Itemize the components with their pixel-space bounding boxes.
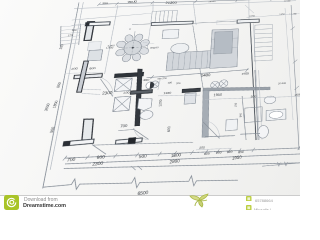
door leaf lower (90, 143, 108, 156)
dim line right end (262, 162, 300, 167)
bath wall vertical bar (130, 69, 146, 127)
svg-text:1950: 1950 (232, 154, 243, 160)
grid drop x193 (191, 1, 198, 25)
svg-text:1800: 1800 (171, 152, 183, 158)
svg-text:2x100: 2x100 (208, 0, 216, 3)
shelf ladder right (254, 24, 272, 61)
door swing bath arc (132, 127, 150, 141)
svg-text:min 200: min 200 (157, 77, 168, 80)
dimension line top row 2 (74, 1, 296, 9)
svg-text:950: 950 (238, 150, 244, 155)
arrow right 1 (277, 162, 280, 166)
wall cross W2 horizontal bar (74, 74, 103, 79)
staircase top-left (57, 24, 84, 47)
dimension line top row 1 (99, 0, 296, 5)
gray wall horizontal (203, 83, 270, 94)
svg-text:200: 200 (251, 94, 257, 98)
svg-text:850: 850 (56, 82, 63, 88)
svg-text:1950: 1950 (241, 72, 249, 76)
dim row 1 (62, 136, 300, 172)
green icon row2 (246, 205, 252, 211)
washing machine (184, 93, 196, 104)
svg-text:2300: 2300 (92, 160, 105, 167)
small cabinet rect (226, 119, 238, 131)
svg-text:1950: 1950 (279, 12, 285, 15)
svg-text:1160: 1160 (163, 91, 171, 95)
bath wall horizontal bar (114, 72, 143, 77)
grid bubble 1 (210, 81, 219, 89)
svg-text:600: 600 (227, 149, 233, 154)
svg-text:500: 500 (139, 153, 148, 159)
svg-text:3600: 3600 (43, 103, 51, 111)
door swing from W2 (97, 78, 115, 98)
svg-text:150: 150 (233, 102, 237, 107)
window bar right (237, 19, 259, 23)
coffee table oval (170, 43, 189, 54)
svg-text:700: 700 (67, 156, 77, 162)
svg-text:560: 560 (49, 127, 56, 133)
grid line x118 (105, 5, 118, 74)
bottom wall right segment2 (240, 132, 260, 135)
svg-text:5400: 5400 (201, 72, 211, 77)
dining table with 8 chairs (113, 31, 153, 64)
svg-text:600: 600 (89, 66, 96, 70)
right chain ticks (290, 27, 299, 91)
bottom wall bar middle (115, 138, 142, 144)
thin line right of W2 b (81, 92, 100, 96)
toilet oval (140, 110, 154, 120)
shaft box 1 (114, 78, 132, 92)
svg-text:200: 200 (143, 78, 150, 82)
wall living-kitchen (187, 25, 207, 90)
dim line 200c (196, 146, 232, 151)
tv rect (162, 29, 179, 38)
svg-text:600: 600 (166, 126, 171, 132)
dimension ticks top row (97, 0, 297, 6)
dim row 2 (62, 141, 300, 178)
corner sink (137, 98, 152, 111)
ticks arrows row3 (131, 165, 143, 171)
svg-text:150: 150 (167, 81, 172, 84)
right wall inner line (251, 23, 262, 140)
green icon row1 (246, 196, 252, 202)
svg-text:230: 230 (123, 90, 130, 94)
fan symbol (146, 82, 155, 89)
washer wall bar (182, 88, 200, 92)
oval fixture 2 in box (266, 109, 286, 121)
ticks 5400 (150, 68, 248, 79)
wardrobe with dividers (151, 10, 178, 22)
right dim chain (291, 5, 299, 151)
shaft box 2 (113, 96, 131, 111)
right wall lower vertical 2 (257, 70, 263, 140)
thin line left of W1 (71, 24, 85, 25)
grid drop x153 (152, 2, 154, 11)
svg-text:200: 200 (71, 67, 78, 71)
door leaf bath (131, 127, 150, 141)
dim line top right tier3 (247, 14, 300, 18)
right wall lower vertical (254, 70, 260, 141)
dim line under W2 (65, 71, 104, 75)
oval fixture 3 (258, 125, 269, 138)
svg-text:360: 360 (58, 44, 64, 49)
svg-text:700: 700 (120, 124, 128, 129)
svg-text:900: 900 (96, 154, 106, 160)
svg-text:900: 900 (216, 150, 222, 155)
svg-text:+7,195: +7,195 (289, 12, 297, 15)
left wall dark end (63, 141, 70, 146)
svg-text:2800: 2800 (169, 158, 181, 165)
upper chain cross line (72, 13, 151, 20)
svg-text:Ø1100: Ø1100 (150, 45, 159, 49)
wall line y145 (92, 136, 194, 152)
leader line top right (245, 5, 254, 14)
grid bubble 2 (219, 80, 228, 88)
dim line 1160 (158, 93, 200, 98)
bottom dim row 3 (60, 145, 300, 188)
grid bubble 3 (150, 81, 159, 88)
left window bar lower (63, 139, 94, 146)
svg-text:300: 300 (71, 28, 77, 32)
window bar W1 dark end (85, 23, 89, 26)
top wall line left (132, 23, 151, 26)
watermark bar (0, 195, 300, 211)
svg-text:200: 200 (176, 82, 181, 85)
svg-text:200: 200 (199, 145, 205, 150)
svg-text:1800: 1800 (52, 100, 60, 108)
ticks bottom row1 (60, 134, 300, 174)
oval fixture 1 (264, 96, 276, 104)
svg-text:9600: 9600 (127, 0, 138, 4)
bottom wall dark block (128, 137, 136, 144)
svg-text:600: 600 (204, 151, 210, 156)
dreamstime logo (4, 195, 19, 210)
ground line with breaks (40, 162, 238, 203)
svg-text:940: 940 (238, 112, 242, 117)
table leader line (143, 42, 155, 44)
svg-text:2x100: 2x100 (284, 0, 291, 2)
right dim chain 2 (285, 8, 293, 121)
dim line 700a (118, 129, 134, 130)
svg-text:1200: 1200 (158, 99, 163, 107)
left wall pier lower (80, 118, 95, 141)
left dim chain line 2 (50, 0, 84, 170)
wall cross W2 vertical bar (77, 61, 89, 93)
top wall line spanning (193, 21, 237, 23)
svg-text:20 600: 20 600 (278, 81, 287, 85)
right wall vertical double (247, 23, 258, 141)
svg-text:2300: 2300 (102, 90, 114, 96)
svg-text:250: 250 (295, 93, 300, 97)
door swing right arc (204, 119, 221, 140)
left dim chain line (42, 0, 81, 188)
floor plan (perspective transformed) (67, 0, 299, 188)
stair band wall (87, 42, 101, 51)
svg-text:1950: 1950 (213, 93, 222, 97)
arrow right 2 (285, 161, 288, 165)
washer wall line (158, 80, 160, 90)
gray wall vertical (200, 90, 211, 138)
L-shaped sofa (166, 29, 238, 71)
thin line right of W2 a (83, 88, 102, 91)
svg-text:Y: Y (129, 27, 132, 31)
plant sketch (186, 193, 212, 208)
dim line 1950 mid (205, 92, 300, 103)
door leaf right (202, 120, 221, 140)
wall line x242 (241, 96, 248, 141)
svg-text:380: 380 (102, 1, 109, 5)
closet box (87, 50, 102, 61)
faint balcony rect (217, 20, 240, 25)
svg-text:21200: 21200 (165, 1, 177, 5)
window bar W1 horizontal (85, 22, 110, 26)
dim line 5400 (147, 70, 249, 78)
bath wall lower horizontal (130, 90, 152, 95)
wall pier W1 vertical (84, 22, 94, 41)
bottom wall right segment (205, 134, 235, 138)
room edge line left of window (147, 26, 151, 52)
bathtub box (244, 107, 262, 123)
window bar middle (151, 21, 193, 25)
grid drop x249 (248, 0, 249, 21)
